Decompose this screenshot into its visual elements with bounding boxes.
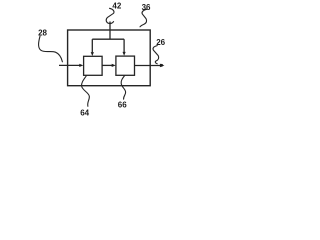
wire top entry 42	[109, 22, 111, 40]
leader 66	[121, 76, 125, 100]
wire output	[135, 65, 161, 67]
arrowhead into block 66 (top)	[123, 52, 126, 56]
wire between blocks	[102, 64, 112, 66]
wire distribution	[92, 38, 124, 40]
svg-text:66: 66	[118, 101, 127, 110]
leader 28	[39, 36, 63, 62]
wire input	[59, 64, 80, 66]
leader 42	[106, 8, 114, 23]
arrowhead into block 64 (left)	[79, 64, 83, 67]
leader 64	[82, 76, 90, 106]
svg-text:64: 64	[80, 109, 89, 118]
arrowhead into block 64 (top)	[91, 52, 94, 56]
svg-text:42: 42	[112, 1, 121, 10]
arrowhead into block 66 (left)	[112, 64, 116, 67]
block 64	[84, 56, 103, 75]
arrowhead output 26	[160, 64, 165, 68]
leader 26	[153, 46, 159, 64]
svg-text:36: 36	[142, 3, 151, 12]
leader 36	[140, 9, 147, 27]
svg-text:28: 28	[38, 28, 47, 37]
wire branch right	[123, 39, 125, 52]
svg-text:26: 26	[156, 38, 165, 47]
wire branch left	[91, 39, 93, 52]
outer box 36	[68, 30, 151, 86]
block 66	[116, 56, 135, 75]
